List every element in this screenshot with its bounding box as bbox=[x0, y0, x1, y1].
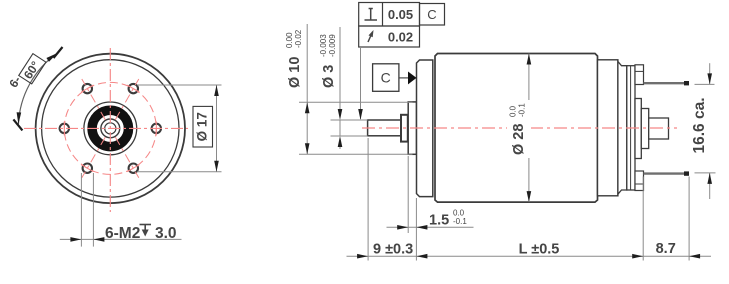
dimension D10 extension lines bbox=[299, 101, 413, 103]
svg-text:6-M2: 6-M2 bbox=[105, 225, 140, 242]
dimension 1.5 extension lines bbox=[407, 156, 409, 233]
shaft inner circle bbox=[105, 123, 116, 134]
svg-text:-0.009: -0.009 bbox=[328, 34, 337, 57]
terminal top bbox=[644, 82, 687, 84]
rear bearing boss bbox=[641, 109, 648, 149]
dimension D17 extension lines bbox=[137, 84, 222, 86]
motor outer circle bbox=[36, 54, 185, 203]
svg-text:8.7: 8.7 bbox=[656, 241, 676, 257]
svg-text:0.02: 0.02 bbox=[388, 30, 413, 45]
terminal bottom bbox=[644, 172, 687, 174]
front boss D10 bbox=[408, 102, 416, 154]
bottom dimension extension lines bbox=[367, 138, 369, 261]
svg-text:Ø 17: Ø 17 bbox=[195, 112, 210, 141]
shaft collar bbox=[401, 115, 408, 142]
front view centerlines bbox=[24, 48, 188, 212]
label D28 bbox=[507, 100, 531, 158]
svg-text:C: C bbox=[381, 70, 391, 86]
angle dimension arc 60deg bbox=[18, 53, 57, 124]
dimension D28 line bbox=[528, 54, 530, 203]
dimension 6-M2 line bbox=[60, 238, 182, 240]
svg-text:-0.1: -0.1 bbox=[518, 103, 527, 117]
bearing ring (thick) bbox=[92, 110, 128, 146]
datum C box bbox=[373, 64, 399, 92]
dimension D17 line bbox=[216, 85, 218, 172]
svg-text:3.0: 3.0 bbox=[155, 225, 177, 242]
FCF leader bbox=[360, 47, 362, 119]
svg-text:-0.1: -0.1 bbox=[453, 217, 467, 226]
end cap rear bbox=[627, 66, 635, 190]
label D3 bbox=[319, 34, 337, 88]
bottom dimension line bbox=[347, 255, 712, 257]
svg-text:0.00: 0.00 bbox=[285, 32, 294, 48]
svg-text:Ø 3: Ø 3 bbox=[321, 65, 337, 88]
datum leader and triangle bbox=[399, 77, 408, 79]
dimension 1.5 line bbox=[387, 226, 474, 228]
terminal pad top bbox=[635, 65, 644, 85]
terminal pad bottom bbox=[635, 171, 644, 191]
label 16.6 ca bbox=[691, 97, 708, 153]
svg-text:C: C bbox=[427, 7, 436, 22]
bolt circle (red dashed) bbox=[64, 82, 156, 174]
svg-text:1.5: 1.5 bbox=[429, 213, 449, 229]
svg-text:0.0: 0.0 bbox=[509, 105, 518, 117]
svg-text:Ø 10: Ø 10 bbox=[287, 57, 303, 88]
center hub circle bbox=[84, 102, 137, 155]
side view centerline bbox=[362, 127, 677, 129]
motor body bbox=[435, 54, 598, 203]
svg-text:L ±0.5: L ±0.5 bbox=[519, 242, 560, 258]
svg-text:0.05: 0.05 bbox=[388, 7, 413, 22]
shaft bbox=[368, 120, 401, 136]
svg-text:9 ±0.3: 9 ±0.3 bbox=[373, 242, 413, 258]
svg-text:16.6 ca.: 16.6 ca. bbox=[691, 97, 708, 153]
dimension 16.6 extension lines bbox=[695, 83, 715, 85]
feature control frame perpendicularity bbox=[359, 3, 445, 48]
rear shaft stub bbox=[649, 118, 669, 139]
svg-text:-0.003: -0.003 bbox=[319, 34, 328, 57]
dimension D3 line bbox=[339, 27, 341, 110]
end cap band B bbox=[618, 62, 627, 195]
svg-text:-0.02: -0.02 bbox=[294, 29, 303, 48]
dimension D3 extension lines bbox=[331, 119, 368, 121]
mounting holes 6x M2 bbox=[60, 84, 161, 173]
label D17 box bbox=[193, 106, 213, 147]
dimension 6-M2 extension lines bbox=[80, 173, 82, 247]
hole tick marks (red) bbox=[64, 85, 156, 172]
end cap band A bbox=[598, 60, 618, 196]
shaft circle bbox=[101, 119, 120, 138]
label D10 bbox=[285, 29, 303, 88]
dimension D10 line bbox=[306, 24, 308, 154]
front flange bbox=[417, 60, 433, 197]
motor inner circle bbox=[42, 60, 179, 197]
svg-text:Ø 28: Ø 28 bbox=[511, 124, 527, 155]
rear boss large bbox=[635, 99, 641, 159]
label 6-60 deg bbox=[6, 74, 24, 91]
dimension 16.6 line bbox=[709, 63, 711, 84]
